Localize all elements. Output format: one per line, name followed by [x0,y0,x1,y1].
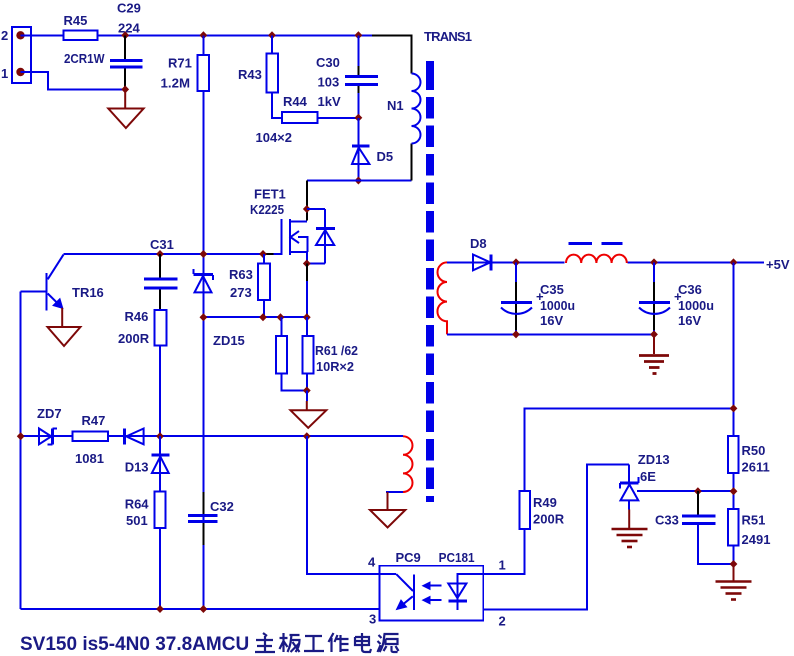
svg-text:PC9: PC9 [396,550,421,565]
svg-text:1kV: 1kV [318,94,341,109]
svg-text:2CR1W: 2CR1W [64,51,105,66]
diode body of FET1 [316,209,335,264]
op-amp U? none; optocoupler PC9 PC181 box [380,550,484,621]
node junction C36 bottom [650,330,658,338]
svg-text:+5V: +5V [766,257,790,272]
ground (aux winding) [370,492,405,528]
transformer primary winding N1 arcs [412,74,421,144]
diode D13 horizontal [125,429,144,445]
svg-text:D8: D8 [470,236,487,251]
connector CON1 [12,27,31,83]
node junction C33 top [694,487,702,495]
板 [280,633,300,652]
resistor R46 [118,309,166,436]
svg-text:273: 273 [230,285,252,300]
transistor phototransistor of PC9 [380,574,415,610]
inductor L output choke (red) [565,244,628,265]
wire gate black stub [263,253,273,255]
主 [255,633,275,652]
svg-text:SV150 is5-4N0 37.8AMCU: SV150 is5-4N0 37.8AMCU [20,634,249,655]
node junction R43 top [268,31,276,39]
node junction D5 bottom [355,177,363,185]
node junction C35 top [512,258,520,266]
node junction C36 top [650,258,658,266]
node junction R61 bottom [303,387,311,395]
node junction source [303,260,311,268]
resistor R64 [125,491,166,609]
ground (R61) [291,391,327,428]
wire FET drain column (black) [306,181,308,221]
transistor TR16 [21,255,104,311]
svg-text:ZD13: ZD13 [638,452,670,467]
node junction R63 bottom [259,313,267,321]
transformer secondary winding (red) [437,262,447,334]
svg-text:PC181: PC181 [439,550,475,565]
svg-text:2: 2 [499,614,506,629]
ground (ZD13, signal style) [612,510,648,548]
ground (C29) [108,89,143,128]
svg-text:10R×2: 10R×2 [316,359,354,374]
node junction ZD15 line at row [200,313,208,321]
svg-text:R63: R63 [229,267,253,282]
svg-text:1: 1 [499,558,506,573]
resistor R47 [73,413,108,466]
svg-text:R46: R46 [125,309,149,324]
svg-text:2611: 2611 [742,460,770,475]
svg-text:C29: C29 [117,1,141,16]
node junction drain / body diode top [303,205,311,213]
svg-text:200R: 200R [118,331,150,346]
wire top rail from connector pin2 to primary loop [21,34,373,36]
wire bottom rail [21,608,380,610]
node junction gate/R63 top [259,250,267,258]
node junction +5V branch [730,258,738,266]
svg-text:C32: C32 [210,499,234,514]
svg-text:C31: C31 [150,237,174,252]
wire +5V column down right side [733,262,735,436]
svg-text:501: 501 [126,513,148,528]
svg-text:R50: R50 [742,443,766,458]
svg-text:D5: D5 [377,149,394,164]
node junction ZD15 top [200,250,208,258]
wire ZD13 row [637,490,734,492]
svg-text:1081: 1081 [75,451,104,466]
resistor R61 [276,317,358,390]
wire aux winding bottom to ground [386,491,403,493]
wire secondary top row [447,261,764,263]
node junction C35 bottom [512,330,520,338]
node junction C31 top [156,250,164,258]
svg-text:200R: 200R [533,512,565,527]
node junction R61a top [277,313,285,321]
svg-text:R61 /62: R61 /62 [315,343,358,358]
zener diode ZD7 [37,406,62,444]
svg-text:R47: R47 [82,413,106,428]
resistor R50 [728,436,770,509]
svg-text:ZD7: ZD7 [37,406,62,421]
node junction R61b/source [303,313,311,321]
svg-text:R51: R51 [742,513,766,528]
wire snubber bottom row to FET drain [307,180,412,182]
svg-text:K2225: K2225 [250,202,284,217]
zener diode ZD15 [194,269,245,348]
svg-text:R45: R45 [64,13,88,28]
wire left rail [20,292,22,609]
svg-text:R49: R49 [533,495,557,510]
svg-text:224: 224 [118,21,140,36]
resistor R71 [161,55,210,91]
diode D13 vertical [125,436,170,491]
svg-text:3: 3 [369,612,376,627]
svg-text:TRANS1: TRANS1 [424,29,472,44]
resistor R43 [238,53,278,92]
capacitor C31 [144,237,178,310]
node junction top of C29 [121,31,129,39]
node junction C30 top [355,31,363,39]
作 [329,633,349,652]
svg-text:FET1: FET1 [254,187,286,202]
wire source down to R61 row [306,264,308,282]
transistor FET1 (MOSFET K2225) [250,187,308,264]
svg-text:TR16: TR16 [72,285,104,300]
svg-text:1000u: 1000u [540,298,575,313]
resistor R44 [256,94,318,145]
工 [304,636,324,651]
node junction row / R46 column [156,432,164,440]
svg-text:1: 1 [1,66,8,81]
svg-text:N1: N1 [387,98,404,113]
capacitor C30 [316,35,378,118]
svg-text:104×2: 104×2 [256,130,293,145]
wire ZD13 to opto pin2 [483,465,629,610]
arrows optocoupler coupling [422,581,442,604]
capacitor C29 [110,1,143,90]
transformer core dashed line [426,61,434,502]
node junction R50/R51 [730,487,738,495]
wire R71/ZD15 vertical column [202,35,204,609]
LED of PC181 [448,574,483,610]
电 [355,633,371,652]
svg-text:4: 4 [368,555,376,570]
wire ZD7 row [21,435,403,437]
svg-text:C33: C33 [655,513,679,528]
svg-text:ZD15: ZD15 [213,333,245,348]
wire R43 branch down and across R44 [272,35,358,118]
svg-text:103: 103 [318,75,340,90]
wire opto pin4 column [307,436,380,574]
svg-text:16V: 16V [678,313,701,328]
transformer TRANS1 primary frame (black) [372,35,412,180]
svg-text:D13: D13 [125,460,149,475]
svg-text:6E: 6E [640,469,656,484]
svg-text:1000u: 1000u [678,298,714,313]
wire pin1 of connector down to C29 bottom node [21,72,126,89]
wire feedback row to R49 [525,408,734,491]
diode D8 [470,236,491,270]
node junction feedback/+5V column [730,404,738,412]
capacitor C35 [501,262,575,334]
node junction R71 top [200,31,208,39]
svg-text:2491: 2491 [742,532,771,547]
svg-text:2: 2 [1,28,8,43]
node junction bottom rail / C32 [200,605,208,613]
ground (TR16 emitter) [48,308,81,346]
ground (R51, signal style) [716,564,752,600]
node junction bottom of C29 [121,85,129,93]
transformer aux winding (red) [403,436,413,492]
zener diode ZD13 [620,452,670,510]
ground (C36, signal style) [639,334,669,373]
resistor R51 [728,509,770,564]
wire secondary bottom row [447,333,654,335]
源 [378,634,399,652]
wire R63/R61 row [203,316,306,318]
node junction C30/R44/D5 [355,114,363,122]
svg-text:R71: R71 [168,56,192,71]
capacitor C32 [188,492,234,545]
diode D5 [352,118,393,181]
node junction left rail row [17,432,25,440]
node junction row / pin4 column [303,432,311,440]
capacitor C36 [639,262,714,334]
wire gate row from TR16 collector to gate [64,253,282,255]
svg-text:16V: 16V [540,313,563,328]
resistor R62 [303,317,314,390]
capacitor C33 [655,491,734,564]
wire drain node to body diode [307,208,325,210]
svg-text:R43: R43 [238,67,262,82]
title CJK 主板工作电源 (drawn strokes) [255,633,399,652]
node junction bottom rail / R64 [156,605,164,613]
svg-text:C30: C30 [316,55,340,70]
resistor R49 [483,491,565,574]
svg-text:R44: R44 [283,94,308,109]
svg-text:R64: R64 [125,497,150,512]
node junction R51 bottom [730,560,738,568]
resistor R63 [229,254,270,317]
svg-text:1.2M: 1.2M [161,76,191,91]
wire body diode bottom to source [307,263,325,265]
resistor R45 [64,13,106,66]
